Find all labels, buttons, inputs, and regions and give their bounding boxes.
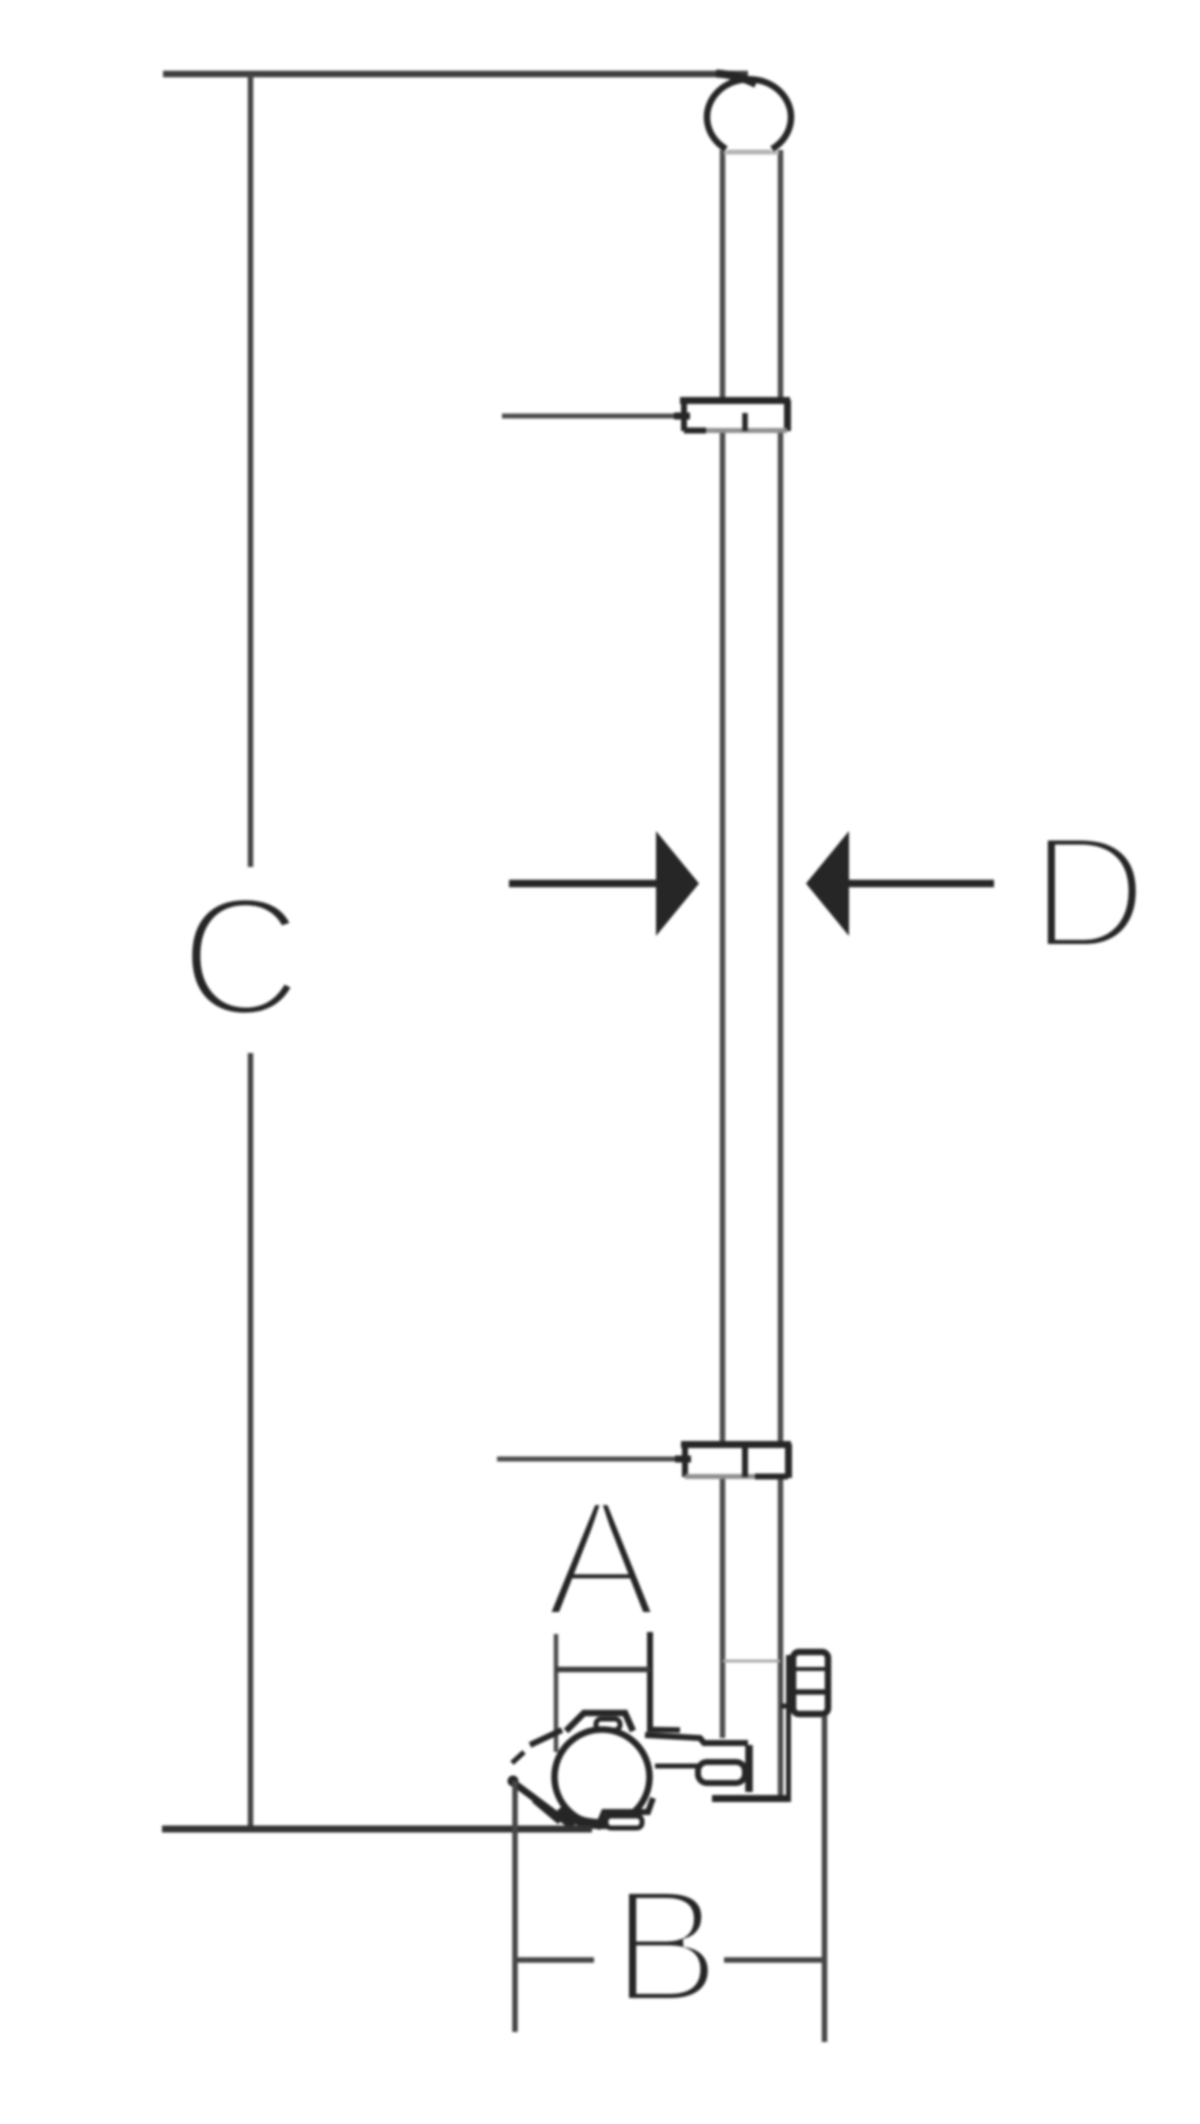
set screw plate — [786, 1655, 791, 1797]
wire knurl wedge outer — [514, 1783, 573, 1827]
wire ball joint faint line — [727, 150, 771, 154]
svg-text:C: C — [180, 862, 303, 1052]
wire collar divider — [742, 1444, 748, 1477]
bracket arm slot — [698, 1762, 745, 1783]
wire ground line — [162, 1826, 592, 1833]
wire upper leader line — [502, 414, 684, 419]
node knurl junction dot — [508, 1776, 519, 1787]
bracket wing slot — [596, 1719, 620, 1730]
svg-text:D: D — [1031, 802, 1148, 983]
collar lower ferrule — [685, 1444, 788, 1477]
wire D left arrowhead — [656, 831, 699, 936]
wire C dimension line lower — [248, 1053, 254, 1829]
wire bracket arm top edge — [645, 1735, 748, 1743]
wire A left extension line — [554, 1634, 559, 1752]
svg-text:B: B — [612, 1854, 721, 2037]
wire bracket arm pocket edge — [655, 1764, 700, 1769]
collar upper ferrule — [684, 400, 787, 431]
wire B dimension left segment — [516, 1957, 594, 1963]
wire knurl wedge inner — [534, 1800, 560, 1822]
bracket foot slot — [606, 1816, 642, 1828]
wire knurl dash upper left — [530, 1730, 562, 1745]
wire bracket bottom edge — [712, 1795, 791, 1802]
wire B right extension line — [822, 1716, 828, 2042]
wire bracket faint cross line — [723, 1660, 780, 1663]
wire D right arrowhead — [806, 831, 849, 936]
wire A dimension bar — [556, 1667, 650, 1673]
wire tube joint faint line — [724, 152, 779, 155]
wire B left extension line — [512, 1781, 518, 2032]
wire top horizontal line — [163, 71, 748, 78]
wire set screw ridge 2 — [794, 1689, 827, 1695]
ball top knob — [707, 79, 791, 149]
wire D right arrow line — [847, 880, 994, 888]
wire A right extension line — [647, 1632, 653, 1732]
wire lower leader line — [497, 1457, 685, 1462]
wire D left arrow line — [509, 880, 658, 888]
wire bracket arm right edge — [745, 1745, 753, 1792]
wire pole right edge — [778, 150, 784, 1799]
wire bracket foot step — [597, 1798, 653, 1829]
wire pole left edge — [720, 150, 726, 1738]
wire A dim foot link — [650, 1727, 680, 1733]
wire line end blob — [716, 74, 756, 85]
wire set screw ridge 1 — [794, 1667, 827, 1671]
wire set screw connector — [781, 1704, 793, 1709]
svg-text:A: A — [545, 1466, 657, 1652]
wire C dimension line upper — [248, 74, 254, 867]
wire knurl dash left — [512, 1752, 524, 1763]
knob circle — [555, 1730, 650, 1825]
wire collar tick — [742, 413, 748, 431]
bracket wing tab — [566, 1713, 633, 1731]
wire knob bottom thick arc — [560, 1808, 622, 1824]
wire B dimension right segment — [724, 1957, 824, 1963]
set screw body — [793, 1652, 828, 1714]
